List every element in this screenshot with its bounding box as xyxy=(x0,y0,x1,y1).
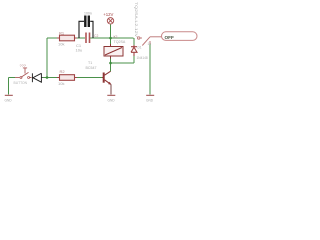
supply symbol +12V xyxy=(107,18,113,24)
diode D1 (flyback, vertical) xyxy=(131,45,137,56)
svg-text:GND: GND xyxy=(146,99,154,103)
ground GND2 xyxy=(107,94,115,96)
pin dot S1 left xyxy=(20,77,22,79)
svg-text:T1: T1 xyxy=(88,61,92,65)
svg-text:R1: R1 xyxy=(59,31,65,36)
svg-text:BUTTON: BUTTON xyxy=(14,81,28,85)
resistor R1 xyxy=(57,35,77,41)
svg-text:C2: C2 xyxy=(94,34,98,38)
junction node at 47,77.5 xyxy=(46,76,49,79)
svg-text:BC547: BC547 xyxy=(86,66,97,70)
svg-text:GND: GND xyxy=(108,99,116,103)
pin dot S1 right xyxy=(28,77,30,79)
capacitor C1 (red, in line y=38) xyxy=(86,33,90,44)
svg-text:TQ2SA-L2-12V: TQ2SA-L2-12V xyxy=(134,2,138,38)
capacitor C2 (black bold, parallel above) xyxy=(79,16,93,39)
wire net +12V horizontal row y=38 xyxy=(47,37,134,39)
ground GND1 xyxy=(5,94,13,96)
relay contact xyxy=(138,37,162,46)
wire button row y=77.5 xyxy=(9,77,103,79)
svg-text:10k: 10k xyxy=(58,81,64,86)
svg-text:10u: 10u xyxy=(76,48,83,53)
wire vertical from node to button row xyxy=(46,38,48,78)
svg-text:K1: K1 xyxy=(114,35,118,39)
svg-text:10: 10 xyxy=(148,42,152,46)
svg-text:D1: D1 xyxy=(138,46,142,50)
push button S1 xyxy=(15,68,32,78)
svg-text:+12V: +12V xyxy=(103,12,113,17)
wire relay contact common to ground xyxy=(149,44,151,95)
resistor R2 xyxy=(57,75,77,81)
diode D2 (black bold) xyxy=(32,73,42,82)
junction node at 110.5,63 xyxy=(109,62,112,65)
transistor T1 xyxy=(102,71,111,84)
svg-text:TQ2SA: TQ2SA xyxy=(114,40,126,44)
wire button to ground xyxy=(8,78,10,95)
relay coil K1 xyxy=(104,44,123,59)
wire diode top pin xyxy=(133,38,135,45)
wire emitter to ground xyxy=(110,84,112,94)
svg-text:1N4148: 1N4148 xyxy=(137,56,148,60)
svg-text:OFF: OFF xyxy=(165,35,175,40)
transistor T1 emitter arrow xyxy=(108,82,111,85)
svg-text:???: ??? xyxy=(20,64,26,68)
svg-text:10k: 10k xyxy=(58,42,64,47)
net flag OFF capsule xyxy=(162,32,198,41)
wire coil bottom to diode bottom xyxy=(111,56,135,72)
wire +12V supply vertical xyxy=(110,25,112,47)
junction node at 110.5,38 xyxy=(109,37,112,40)
svg-text:GND: GND xyxy=(5,99,13,103)
svg-text:R2: R2 xyxy=(60,69,66,74)
ground GND3 xyxy=(146,94,154,96)
svg-text:100n: 100n xyxy=(84,12,92,16)
